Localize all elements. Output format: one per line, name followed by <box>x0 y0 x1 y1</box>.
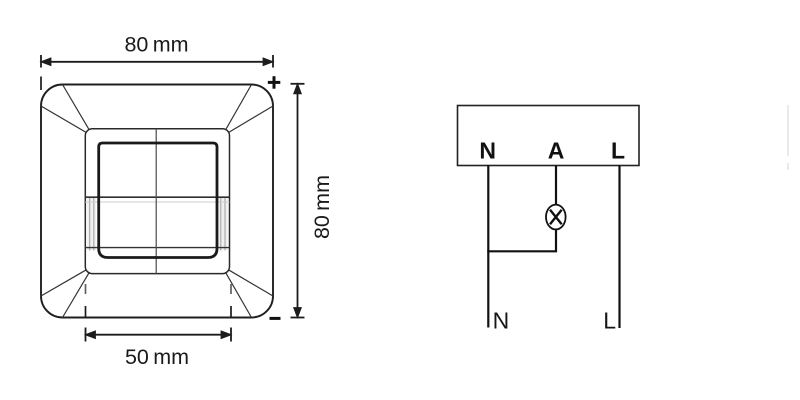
svg-text:80 mm: 80 mm <box>124 33 188 57</box>
svg-text:N: N <box>479 138 496 164</box>
svg-text:N: N <box>493 308 510 334</box>
svg-text:50 mm: 50 mm <box>125 345 189 369</box>
svg-text:L: L <box>611 138 625 164</box>
svg-text:A: A <box>548 138 565 164</box>
svg-text:80 mm: 80 mm <box>310 175 334 239</box>
svg-text:L: L <box>603 308 616 334</box>
